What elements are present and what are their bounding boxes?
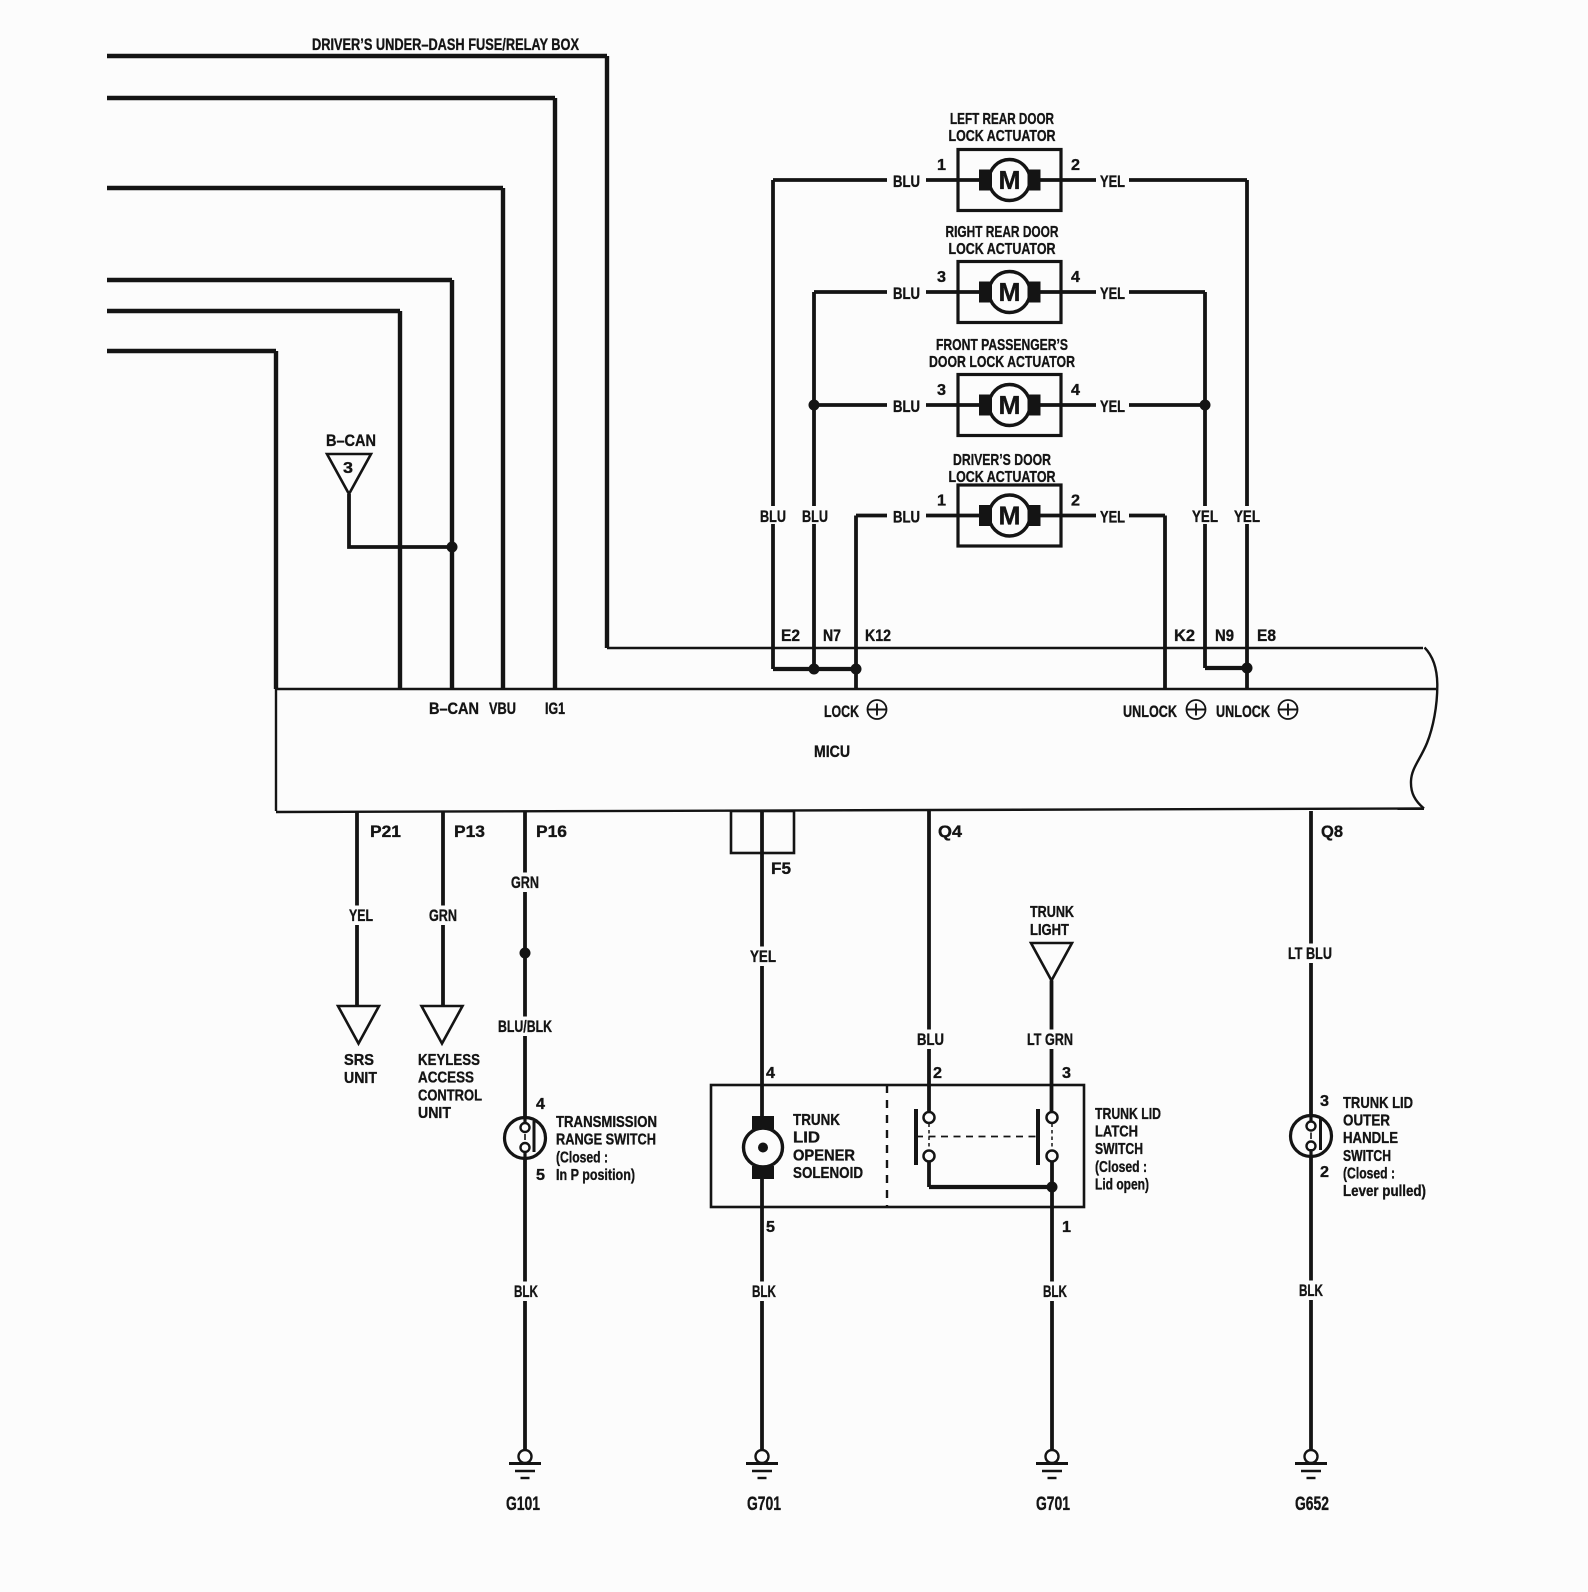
svg-text:YEL: YEL bbox=[1100, 508, 1125, 527]
svg-text:VBU: VBU bbox=[489, 699, 516, 718]
svg-text:In P position): In P position) bbox=[556, 1167, 635, 1184]
svg-text:M: M bbox=[999, 501, 1021, 531]
svg-text:BLK: BLK bbox=[1043, 1282, 1067, 1301]
svg-text:YEL: YEL bbox=[349, 906, 373, 925]
svg-text:N9: N9 bbox=[1215, 626, 1234, 645]
svg-text:B–CAN: B–CAN bbox=[326, 431, 376, 450]
svg-text:BLU: BLU bbox=[893, 397, 920, 416]
svg-text:TRUNK: TRUNK bbox=[793, 1112, 840, 1129]
svg-text:OUTER: OUTER bbox=[1343, 1113, 1390, 1130]
svg-text:DRIVER’S DOOR: DRIVER’S DOOR bbox=[953, 452, 1051, 469]
svg-text:K12: K12 bbox=[865, 626, 891, 645]
svg-text:SRS: SRS bbox=[344, 1052, 374, 1069]
svg-text:M: M bbox=[999, 390, 1021, 420]
svg-text:G701: G701 bbox=[1036, 1494, 1070, 1515]
svg-text:UNIT: UNIT bbox=[344, 1070, 377, 1087]
svg-text:YEL: YEL bbox=[1234, 507, 1260, 526]
svg-text:Q4: Q4 bbox=[938, 822, 963, 841]
svg-text:2: 2 bbox=[933, 1065, 942, 1082]
svg-text:BLU: BLU bbox=[893, 284, 920, 303]
svg-text:4: 4 bbox=[766, 1065, 775, 1082]
svg-text:F5: F5 bbox=[771, 859, 791, 878]
svg-text:4: 4 bbox=[1071, 382, 1080, 399]
svg-text:4: 4 bbox=[1071, 269, 1080, 286]
svg-text:YEL: YEL bbox=[1100, 397, 1125, 416]
svg-text:LT BLU: LT BLU bbox=[1288, 944, 1332, 963]
svg-text:LIGHT: LIGHT bbox=[1030, 922, 1069, 939]
svg-text:K2: K2 bbox=[1174, 626, 1195, 645]
svg-text:OPENER: OPENER bbox=[793, 1147, 855, 1164]
svg-text:(Closed :: (Closed : bbox=[556, 1149, 608, 1166]
svg-text:LATCH: LATCH bbox=[1095, 1124, 1138, 1141]
svg-text:UNIT: UNIT bbox=[418, 1105, 451, 1122]
svg-text:BLU: BLU bbox=[917, 1030, 944, 1049]
svg-text:3: 3 bbox=[343, 460, 353, 477]
svg-text:P16: P16 bbox=[536, 822, 567, 841]
svg-text:LEFT REAR DOOR: LEFT REAR DOOR bbox=[950, 111, 1054, 128]
svg-text:UNLOCK: UNLOCK bbox=[1123, 702, 1178, 721]
svg-text:4: 4 bbox=[536, 1096, 545, 1113]
svg-text:Lid open): Lid open) bbox=[1095, 1176, 1149, 1193]
svg-text:1: 1 bbox=[937, 493, 946, 510]
svg-text:RIGHT REAR DOOR: RIGHT REAR DOOR bbox=[946, 224, 1059, 241]
svg-text:BLU: BLU bbox=[760, 507, 786, 526]
svg-text:YEL: YEL bbox=[750, 947, 776, 966]
svg-text:2: 2 bbox=[1071, 157, 1080, 174]
svg-text:G652: G652 bbox=[1295, 1494, 1329, 1515]
svg-text:LID: LID bbox=[793, 1130, 820, 1147]
svg-text:CONTROL: CONTROL bbox=[418, 1087, 482, 1104]
svg-text:GRN: GRN bbox=[429, 906, 457, 925]
svg-text:BLK: BLK bbox=[752, 1282, 776, 1301]
svg-text:YEL: YEL bbox=[1100, 172, 1125, 191]
svg-text:YEL: YEL bbox=[1192, 507, 1218, 526]
svg-text:1: 1 bbox=[937, 157, 946, 174]
svg-text:RANGE SWITCH: RANGE SWITCH bbox=[556, 1132, 656, 1149]
svg-text:M: M bbox=[999, 165, 1021, 195]
svg-text:3: 3 bbox=[937, 269, 946, 286]
svg-text:5: 5 bbox=[536, 1167, 545, 1184]
svg-text:BLU/BLK: BLU/BLK bbox=[498, 1017, 553, 1036]
svg-text:E8: E8 bbox=[1257, 626, 1276, 645]
svg-text:P21: P21 bbox=[370, 822, 401, 841]
svg-text:3: 3 bbox=[1062, 1065, 1071, 1082]
svg-text:TRUNK LID: TRUNK LID bbox=[1095, 1106, 1161, 1123]
svg-text:YEL: YEL bbox=[1100, 284, 1125, 303]
svg-text:SWITCH: SWITCH bbox=[1095, 1141, 1143, 1158]
svg-text:2: 2 bbox=[1071, 493, 1080, 510]
svg-text:(Closed :: (Closed : bbox=[1343, 1165, 1395, 1182]
svg-text:P13: P13 bbox=[454, 822, 485, 841]
svg-text:FRONT PASSENGER’S: FRONT PASSENGER’S bbox=[936, 337, 1068, 354]
svg-text:LOCK: LOCK bbox=[824, 702, 860, 721]
svg-text:BLU: BLU bbox=[893, 172, 920, 191]
svg-text:M: M bbox=[999, 277, 1021, 307]
svg-text:LOCK ACTUATOR: LOCK ACTUATOR bbox=[949, 469, 1056, 486]
svg-text:MICU: MICU bbox=[814, 742, 850, 761]
svg-text:BLU: BLU bbox=[802, 507, 828, 526]
svg-text:LT GRN: LT GRN bbox=[1027, 1030, 1073, 1049]
svg-text:KEYLESS: KEYLESS bbox=[418, 1052, 480, 1069]
svg-text:BLK: BLK bbox=[514, 1282, 538, 1301]
svg-text:2: 2 bbox=[1320, 1164, 1329, 1181]
svg-text:BLK: BLK bbox=[1299, 1281, 1323, 1300]
svg-text:TRANSMISSION: TRANSMISSION bbox=[556, 1114, 657, 1131]
svg-text:(Closed :: (Closed : bbox=[1095, 1159, 1147, 1176]
svg-text:G101: G101 bbox=[506, 1494, 540, 1515]
svg-text:SOLENOID: SOLENOID bbox=[793, 1165, 863, 1182]
svg-text:TRUNK: TRUNK bbox=[1030, 904, 1074, 921]
svg-text:BLU: BLU bbox=[893, 508, 920, 527]
svg-text:DRIVER’S UNDER–DASH FUSE/RELAY: DRIVER’S UNDER–DASH FUSE/RELAY BOX bbox=[312, 35, 579, 54]
svg-text:LOCK ACTUATOR: LOCK ACTUATOR bbox=[949, 241, 1056, 258]
svg-text:IG1: IG1 bbox=[545, 699, 565, 718]
svg-text:B–CAN: B–CAN bbox=[429, 699, 479, 718]
svg-text:N7: N7 bbox=[823, 626, 841, 645]
svg-text:3: 3 bbox=[1320, 1093, 1329, 1110]
svg-text:SWITCH: SWITCH bbox=[1343, 1148, 1391, 1165]
svg-text:GRN: GRN bbox=[511, 873, 539, 892]
svg-text:LOCK ACTUATOR: LOCK ACTUATOR bbox=[949, 128, 1056, 145]
svg-text:UNLOCK: UNLOCK bbox=[1216, 702, 1271, 721]
svg-text:E2: E2 bbox=[781, 626, 800, 645]
svg-text:3: 3 bbox=[937, 382, 946, 399]
svg-text:ACCESS: ACCESS bbox=[418, 1070, 474, 1087]
svg-text:TRUNK LID: TRUNK LID bbox=[1343, 1095, 1413, 1112]
svg-text:5: 5 bbox=[766, 1219, 775, 1236]
svg-text:G701: G701 bbox=[747, 1494, 781, 1515]
svg-text:Lever pulled): Lever pulled) bbox=[1343, 1183, 1426, 1200]
svg-text:DOOR LOCK ACTUATOR: DOOR LOCK ACTUATOR bbox=[929, 354, 1075, 371]
svg-text:HANDLE: HANDLE bbox=[1343, 1130, 1398, 1147]
svg-text:Q8: Q8 bbox=[1321, 822, 1343, 841]
svg-text:1: 1 bbox=[1062, 1219, 1071, 1236]
